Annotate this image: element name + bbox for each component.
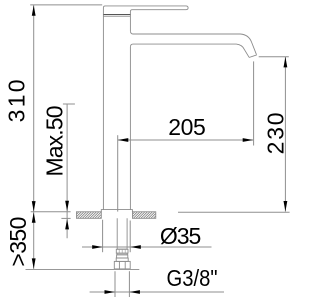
extension line G3/8 left bbox=[114, 271, 116, 297]
extension line G3/8 right bbox=[128, 271, 130, 297]
extension line top (lever top level) bbox=[30, 4, 102, 6]
knurled mounting nut bbox=[116, 249, 128, 253]
arrow Max.50 lower (up) bbox=[65, 219, 69, 230]
svg-text:205: 205 bbox=[168, 114, 206, 140]
body column left edge bbox=[102, 15, 104, 210]
svg-text:Max.50: Max.50 bbox=[41, 106, 67, 177]
svg-text:>350: >350 bbox=[5, 217, 31, 267]
lever hub bottom line bbox=[103, 14, 130, 16]
adapter piece bbox=[116, 258, 128, 261]
arrow 310 top (up) bbox=[32, 5, 36, 16]
deck left hatch bbox=[72, 212, 106, 219]
extension line spout tip level bbox=[259, 56, 289, 58]
arrow 205 left bbox=[118, 138, 129, 142]
extension line body right for d35 bbox=[129, 221, 131, 253]
deck left slab bbox=[76, 212, 101, 219]
extension tick deck bottom left bbox=[61, 217, 70, 219]
svg-text:310: 310 bbox=[3, 79, 29, 122]
svg-text:Ø35: Ø35 bbox=[160, 223, 202, 249]
arrow G3/8 right (points left) bbox=[129, 290, 140, 294]
spout inner line bbox=[130, 44, 249, 57]
dimension line 205 bbox=[118, 139, 253, 141]
dimension line 230 bbox=[284, 57, 286, 212]
extension line below spout tip bbox=[253, 61, 255, 145]
arrow d35 left (points right) bbox=[92, 245, 103, 249]
body column right edge upper bbox=[129, 15, 131, 31]
arrow 205 right bbox=[243, 138, 254, 142]
extension tick deck top left bbox=[31, 211, 71, 213]
arrow G3/8 left (points right) bbox=[105, 290, 116, 294]
dimension line Max.50 bbox=[66, 104, 68, 238]
arrow >350 bottom (down) bbox=[32, 258, 36, 269]
arrow 310 bottom (down) bbox=[32, 201, 36, 212]
tick at top of Max.50 line bbox=[63, 103, 75, 105]
extension line body left for d35 bbox=[102, 220, 104, 253]
floor line bbox=[26, 268, 140, 270]
extension line deck top right bbox=[178, 211, 290, 213]
arrow 230 bottom (down) bbox=[284, 201, 288, 212]
spacer ring bbox=[117, 255, 128, 258]
body column right edge lower bbox=[129, 47, 131, 210]
dimension line 310 bbox=[33, 5, 35, 211]
dimension line G3/8 bbox=[90, 291, 224, 293]
spout tip face bbox=[249, 55, 257, 58]
hex nut bbox=[114, 261, 130, 269]
extension centerline for 205 bbox=[117, 135, 119, 211]
arrow >350 top (up) bbox=[32, 212, 36, 223]
spout outer line bbox=[130, 31, 256, 55]
lever handle bbox=[103, 6, 188, 15]
arrow 230 top (up) bbox=[284, 57, 288, 68]
base flange bbox=[101, 210, 132, 212]
svg-text:G3/8": G3/8" bbox=[167, 265, 218, 291]
arrow d35 right (points left) bbox=[130, 245, 141, 249]
knurl ribs bbox=[119, 249, 125, 253]
shank joint line bbox=[117, 248, 127, 250]
washer ring bbox=[117, 253, 127, 255]
hex nut facets bbox=[119, 261, 125, 269]
deck right slab bbox=[132, 212, 155, 219]
body top rim line bbox=[103, 16, 130, 18]
dimension line diameter 35 bbox=[82, 246, 212, 248]
arrow Max.50 upper (down) bbox=[65, 201, 69, 212]
svg-text:230: 230 bbox=[263, 112, 289, 154]
dimension line >350 bbox=[33, 212, 35, 269]
deck right hatch bbox=[128, 212, 160, 219]
shank tube bbox=[117, 218, 127, 249]
